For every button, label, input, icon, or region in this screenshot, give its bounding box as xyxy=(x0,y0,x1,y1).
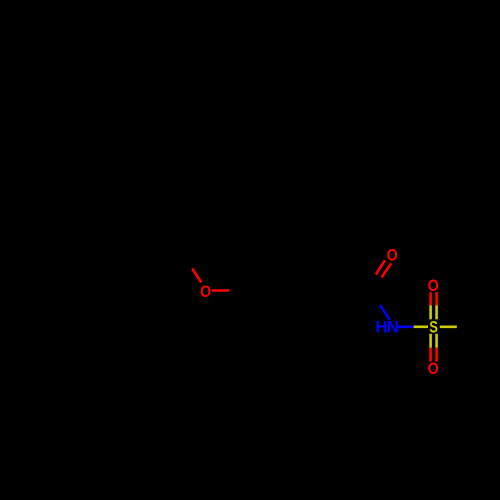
svg-text:O: O xyxy=(200,282,211,301)
wire: S to methyl C bond (yellow half) xyxy=(440,325,457,328)
wire: N to S bond (yellow half) xyxy=(414,325,428,328)
wire: S=O top double bond right line (red half) xyxy=(435,292,438,305)
wire: N to S bond (blue half) xyxy=(398,325,414,328)
wire: S=O bottom double bond right line (red half) xyxy=(435,348,438,362)
wire: carbonyl C=O double bond, inner line (red half) xyxy=(376,260,385,274)
wire: S=O top double bond right line (yellow half) xyxy=(435,305,438,319)
wire: benzyl CH2 to ether O bond (red half) xyxy=(192,269,201,283)
wire: carbonyl C=O double bond, main line (red half) xyxy=(382,263,392,277)
wire: carbonyl C to N bond (blue half) xyxy=(380,305,390,320)
wire: S=O bottom double bond left line (yellow half) xyxy=(429,334,432,348)
svg-text:O: O xyxy=(428,359,439,378)
wire: S=O bottom double bond right line (yellow half) xyxy=(435,334,438,348)
svg-text:HN: HN xyxy=(375,318,398,337)
wire: S=O top double bond left line (yellow half) xyxy=(429,305,432,319)
wire: S=O top double bond left line (red half) xyxy=(429,292,432,305)
svg-text:O: O xyxy=(387,245,398,264)
svg-text:S: S xyxy=(429,318,438,337)
wire: S=O bottom double bond left line (red half) xyxy=(429,348,432,362)
svg-text:O: O xyxy=(428,276,439,295)
wire: ether O to phenyl ring bond (red half) xyxy=(212,289,230,292)
